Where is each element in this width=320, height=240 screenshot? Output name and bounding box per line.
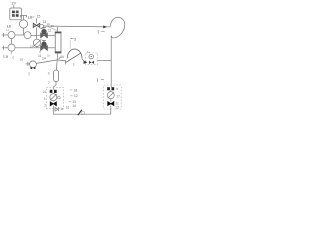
controller box	[10, 8, 22, 20]
faint leader down	[69, 40, 71, 49]
left assembly pump slash	[50, 94, 56, 100]
tank 16 body	[55, 32, 61, 53]
capsule strainer 2	[54, 70, 59, 82]
faucet T-bar	[20, 16, 27, 18]
tank bottom stub	[56, 53, 58, 60]
branch to gauge	[57, 60, 65, 61]
tick below dome	[73, 63, 75, 66]
left inlet stub	[26, 63, 30, 65]
wire	[110, 99, 112, 102]
svg-text:1e: 1e	[87, 50, 91, 54]
svg-text:La: La	[3, 53, 8, 58]
unit circle	[89, 54, 94, 59]
svg-text:1d: 1d	[66, 105, 70, 109]
top long pipe	[44, 25, 108, 28]
svg-text:18: 18	[74, 88, 78, 92]
valve V1 actuator circle	[42, 29, 47, 34]
leader ticks for 11/16	[39, 51, 41, 53]
svg-text:13: 13	[115, 106, 119, 110]
leader dash after L6	[33, 16, 35, 18]
horizontal water line y63	[36, 60, 57, 64]
valve V2 actuator circle	[42, 42, 47, 47]
valve V1 bowtie	[41, 33, 48, 38]
pipe2 left end tick	[3, 46, 5, 50]
right assembly dashed box	[104, 85, 122, 109]
pump P3 circle with slash	[33, 39, 40, 46]
svg-text:14: 14	[6, 28, 10, 32]
inline unit dashed box	[86, 53, 98, 65]
svg-text:1d: 1d	[19, 58, 23, 62]
svg-text:1b: 1b	[47, 53, 51, 57]
svg-text:2: 2	[44, 103, 46, 107]
svg-text:14: 14	[42, 90, 46, 94]
pipe1 left end tick	[3, 33, 5, 37]
gooseneck needle diagonal	[66, 53, 81, 62]
wire down and corner	[53, 106, 111, 114]
sensor circle L6	[19, 20, 27, 28]
svg-text:b: b	[48, 71, 50, 75]
capsule to assembly wire	[53, 82, 56, 90]
solid valve right assembly	[108, 102, 114, 106]
drip tick below circle	[28, 72, 30, 76]
inlet circle	[30, 61, 37, 68]
svg-text:19: 19	[11, 1, 16, 6]
wire y63 to arrow	[82, 59, 85, 62]
small circle right	[58, 96, 61, 99]
svg-text:2: 2	[48, 81, 50, 85]
wire	[52, 92, 54, 95]
svg-text:14: 14	[72, 104, 76, 108]
valve V3 side circle	[39, 24, 43, 28]
right assembly pump slash	[108, 92, 114, 98]
label 17 marks top	[98, 30, 104, 34]
top pipe arrowhead	[103, 25, 107, 28]
svg-text:15: 15	[37, 15, 41, 19]
junction diagonal tick	[78, 110, 82, 115]
controller text blocks	[12, 11, 19, 17]
valve V1 stem	[43, 27, 45, 29]
svg-text:L6: L6	[28, 15, 33, 20]
circle feet	[30, 67, 35, 69]
pump A	[8, 32, 15, 39]
unit outlet wire	[98, 60, 112, 62]
wire pipe1 to tank	[48, 34, 56, 36]
tank bottom cap	[55, 51, 61, 53]
pump P3 slash	[33, 39, 41, 46]
pump B	[8, 44, 15, 51]
wire	[52, 101, 54, 102]
stub below pump B	[11, 51, 13, 54]
main down pipe	[110, 36, 112, 88]
svg-text:ζ: ζ	[12, 56, 14, 60]
svg-text:17: 17	[116, 94, 120, 98]
svg-text:14: 14	[42, 57, 46, 61]
pump circle with slash right assembly	[107, 92, 114, 99]
wire pipe1 right	[31, 34, 40, 36]
vertical between pump A and B	[11, 39, 13, 45]
diagonal into tank top	[47, 26, 57, 30]
inlet arrow	[84, 60, 88, 64]
wire down to bottom pipe	[110, 106, 112, 115]
check valve mark	[55, 107, 58, 111]
svg-text:12: 12	[29, 45, 33, 49]
label marks mid	[98, 78, 104, 82]
svg-text:3: 3	[44, 97, 46, 101]
drop pipe from L6 circle to pipe1	[23, 28, 25, 35]
pipe2 left stub	[2, 47, 8, 49]
pipe1 left stub	[2, 34, 8, 36]
valve V2 handle bar	[42, 39, 46, 41]
svg-text:16: 16	[60, 55, 64, 59]
wire pipe2	[15, 47, 40, 49]
unit valve	[89, 61, 94, 64]
svg-text:1c: 1c	[60, 107, 64, 111]
gooseneck dome	[67, 49, 82, 58]
wire pipe1 middle	[15, 34, 24, 36]
wire P3 to pipe2	[36, 46, 38, 47]
leader from 19 to controller box	[13, 5, 15, 8]
vertical from V3 down	[36, 28, 38, 40]
stacked labels with leaders	[72, 88, 77, 108]
wire	[110, 90, 112, 91]
svg-text:b: b	[116, 87, 118, 91]
solid valve left assembly	[50, 102, 56, 106]
pump circle with slash left assembly	[50, 94, 57, 101]
tank top cap	[55, 32, 61, 34]
left small circle (inlet) end tick	[27, 62, 29, 66]
junction small circle	[81, 111, 84, 114]
wire pipe2 to tank	[48, 47, 56, 49]
valve V2 stem	[43, 40, 45, 41]
tick at diagonal start	[65, 60, 67, 64]
valve V1 handle bar	[42, 26, 46, 28]
pigtail loop	[107, 26, 110, 28]
valve V3 bowtie	[33, 23, 40, 27]
svg-text:12: 12	[74, 94, 78, 98]
tank top stub	[57, 27, 59, 32]
label 3 with dash	[70, 37, 73, 39]
faucet stem	[23, 16, 25, 20]
flow sensor squares right	[107, 87, 110, 90]
flow sensor squares left	[50, 90, 53, 93]
svg-text:11: 11	[48, 28, 52, 32]
left assembly dashed box	[46, 87, 63, 108]
valve V2 bowtie	[41, 46, 48, 51]
pump C	[24, 32, 31, 39]
svg-text:3: 3	[74, 37, 76, 41]
mixing valve V3 on top line	[36, 18, 38, 23]
vertical down to capsule	[55, 60, 58, 70]
